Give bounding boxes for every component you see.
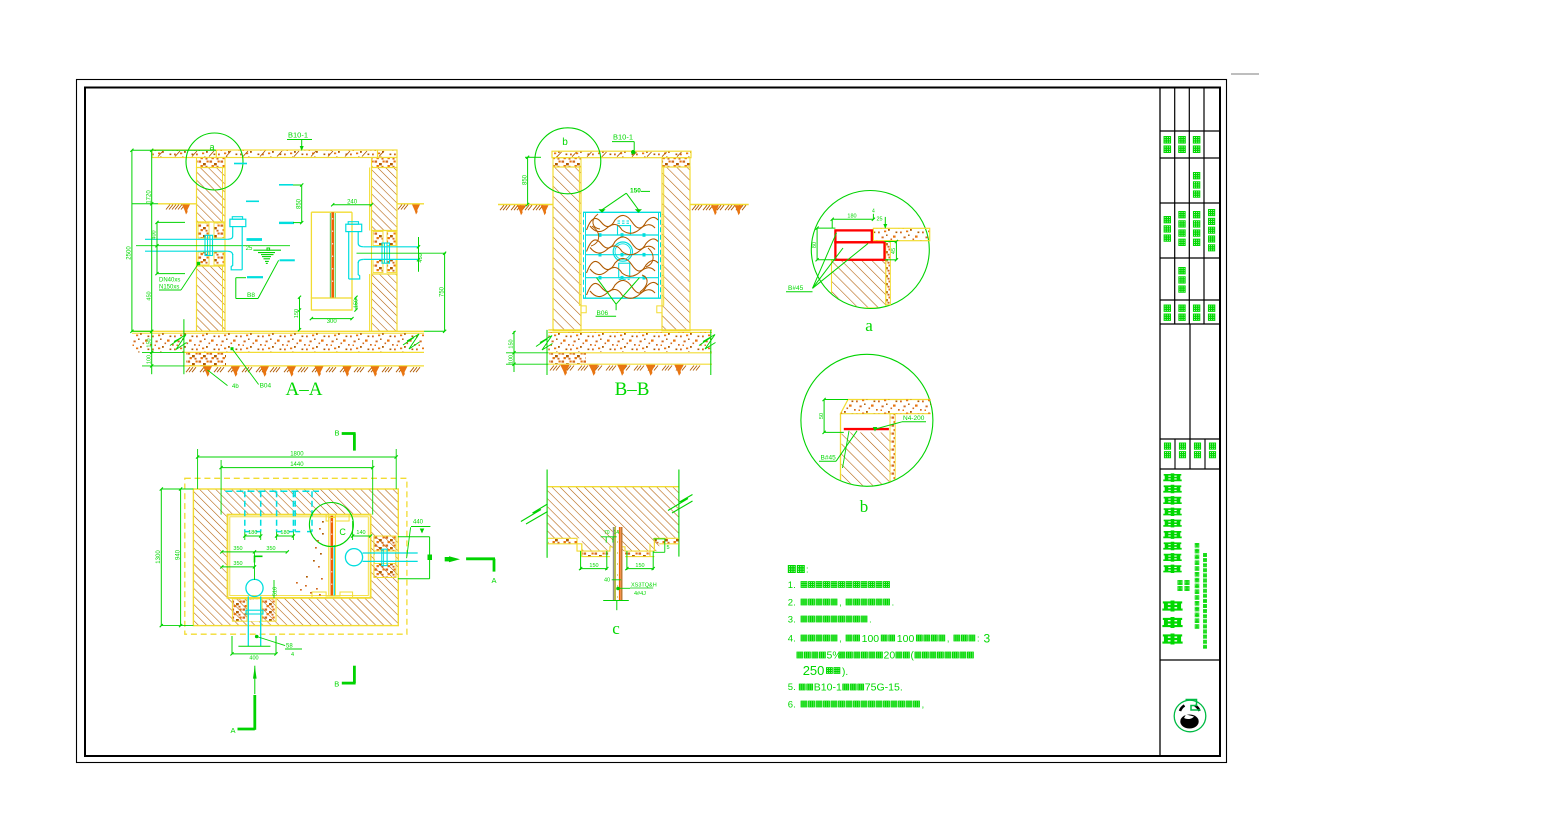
svg-text:14: 14 xyxy=(614,530,620,536)
A-A subgrade hatch and triangles xyxy=(186,367,190,372)
A-A outlet pipe centerline xyxy=(357,252,447,254)
svg-text:B10-1: B10-1 xyxy=(288,131,308,140)
A-A tee riser left outlet flare xyxy=(231,254,242,270)
svg-text:1720: 1720 xyxy=(146,190,152,204)
svg-text:150: 150 xyxy=(635,563,644,569)
title block column lines xyxy=(1174,88,1176,325)
A-A floor yellow line mid xyxy=(184,351,424,353)
svg-text:45: 45 xyxy=(891,248,897,254)
title block row lines xyxy=(1160,130,1220,132)
A-A outlet pipe flange xyxy=(382,243,390,263)
svg-text:70: 70 xyxy=(604,530,610,536)
svg-text:350: 350 xyxy=(266,546,275,552)
A-A inlet pipe DN40 xyxy=(145,238,227,240)
A-A left wall lower hatch xyxy=(197,266,226,331)
svg-text:4.: 4. xyxy=(788,634,796,645)
A-A floor slab top lines xyxy=(132,330,424,332)
A-A base leaders and labels xyxy=(208,370,228,386)
grey revision tick top right xyxy=(1231,73,1259,75)
section A-A xyxy=(127,131,447,401)
svg-text:,: , xyxy=(922,699,925,709)
plan section mark B bottom xyxy=(353,666,356,683)
A-A dimension 850 interior xyxy=(301,185,303,223)
B-B wall inner face lines xyxy=(578,167,580,306)
plan wall outer outline xyxy=(193,489,398,626)
svg-text:40: 40 xyxy=(604,578,610,584)
svg-text:180: 180 xyxy=(248,530,257,536)
svg-text:,: , xyxy=(839,633,842,643)
plan bottom pipe bracket dims xyxy=(231,636,233,654)
detail a leader lines xyxy=(813,233,837,288)
svg-text:300: 300 xyxy=(327,319,338,325)
plan corner mark xyxy=(255,556,263,562)
A-A dimension 750 right xyxy=(444,253,446,331)
A-A detail circle a xyxy=(186,133,243,190)
title text drawing-number row xyxy=(1164,216,1171,223)
A-A ground compaction triangle right xyxy=(412,205,420,215)
svg-text:4: 4 xyxy=(291,652,294,658)
sheet outer border xyxy=(77,80,1227,763)
svg-text:B04: B04 xyxy=(260,383,272,390)
A-A left outer dimension lines xyxy=(131,150,133,331)
plan outlet flange xyxy=(382,549,387,565)
B-B subgrade hatch and triangles xyxy=(550,366,554,371)
svg-text::: : xyxy=(977,633,980,643)
A-A floor break symbol right xyxy=(403,334,420,349)
svg-text:4: 4 xyxy=(872,209,875,215)
plan wall ring hatch xyxy=(193,489,398,626)
svg-text:940: 940 xyxy=(175,549,181,560)
notes title xyxy=(788,565,795,572)
B-B floor break symbols xyxy=(536,336,553,351)
A-A inlet pipe flange xyxy=(205,235,213,255)
svg-text:B#45: B#45 xyxy=(821,455,837,462)
title text signer cell xyxy=(1179,267,1186,274)
detail c bottom line xyxy=(603,600,629,602)
A-A ground compaction triangle left xyxy=(182,205,190,215)
B-B right wall cap speckle xyxy=(662,158,690,167)
plan section mark A bottom xyxy=(254,666,256,694)
A-A tee riser left with cap xyxy=(232,217,242,220)
plan bottom wall pipe box speckle xyxy=(232,599,276,622)
svg-text:6.: 6. xyxy=(788,700,796,711)
svg-text:N4-200: N4-200 xyxy=(903,415,925,422)
notes block xyxy=(788,565,991,711)
svg-text:80: 80 xyxy=(812,242,818,248)
svg-text:240: 240 xyxy=(347,199,358,205)
svg-text:.: . xyxy=(892,597,895,607)
plan dimension 350 350 xyxy=(222,551,287,553)
svg-text:,: , xyxy=(839,597,842,607)
studio name large vertical text xyxy=(1163,473,1181,481)
svg-text:140: 140 xyxy=(356,530,365,536)
svg-text:180: 180 xyxy=(280,530,289,536)
detail b top slab xyxy=(841,400,931,414)
title text project-name row xyxy=(1164,443,1170,449)
svg-text:100: 100 xyxy=(146,355,152,364)
B-B wall corbel steps xyxy=(581,306,586,313)
svg-text:B–B: B–B xyxy=(615,379,650,400)
plan divider top seat xyxy=(326,515,349,521)
plan interior speckle near divider xyxy=(319,528,321,530)
svg-text:20: 20 xyxy=(884,650,896,662)
svg-text:516: 516 xyxy=(273,587,279,596)
A-A floor bottom yellow line xyxy=(184,365,424,367)
B-B center valve stem xyxy=(618,226,631,235)
detail c waterstop strip xyxy=(613,527,623,552)
A-A right wall upper hatch xyxy=(372,168,398,231)
svg-text:a: a xyxy=(865,316,873,335)
A-A dimension 240 xyxy=(333,204,372,206)
detail c break symbols xyxy=(521,504,548,522)
svg-text:b: b xyxy=(562,137,568,148)
detail b xyxy=(801,354,933,516)
sheet inner border xyxy=(85,88,1220,757)
plan divider plate xyxy=(328,516,330,597)
A-A right wall top masonry cap xyxy=(372,158,398,168)
svg-text:450: 450 xyxy=(418,253,424,262)
B-B floor slab top lines xyxy=(548,329,712,331)
plan divider bottom seat xyxy=(312,592,353,598)
svg-text:2.: 2. xyxy=(788,598,796,609)
B-B ground triangles left xyxy=(517,205,525,215)
A-A tee riser right with cap xyxy=(348,222,358,225)
title text design/draw/check/review row xyxy=(1164,305,1171,312)
svg-text:100: 100 xyxy=(897,633,915,645)
svg-text:150: 150 xyxy=(146,338,152,347)
plan dimension 1800 top xyxy=(198,456,397,458)
detail a slab with speckle xyxy=(873,228,929,240)
section B-B xyxy=(498,128,749,400)
title block middle column line lower xyxy=(1189,324,1191,469)
svg-text:3: 3 xyxy=(984,632,991,646)
svg-text:5: 5 xyxy=(667,545,670,551)
plan dimension 1300 left xyxy=(160,489,162,626)
svg-text:c: c xyxy=(612,619,620,638)
svg-text:750: 750 xyxy=(439,286,445,297)
A-A dimension 150 chase base xyxy=(355,297,357,310)
A-A outlet pipe right xyxy=(364,246,419,248)
plan right wall pipe box speckle xyxy=(374,536,396,578)
svg-text:350: 350 xyxy=(233,561,242,567)
svg-text:B#45: B#45 xyxy=(788,285,804,292)
A-A dimension 150/100 left of chase xyxy=(299,297,301,330)
B-B floor depth dimensions xyxy=(513,331,515,372)
studio contact info vertical text xyxy=(1195,543,1199,547)
B-B bottom leader xyxy=(597,278,617,305)
svg-text:A: A xyxy=(491,576,496,585)
detail c right step dim xyxy=(653,538,665,540)
title block row 439 sub columns xyxy=(1174,439,1176,469)
B-B floor mid yellow line xyxy=(548,352,712,354)
B-B frame intermediate rails xyxy=(586,234,659,236)
plan dimension 180 pair xyxy=(245,535,261,537)
detail b circle xyxy=(801,354,933,486)
A-A dimension 450 outlet xyxy=(418,237,420,272)
svg-text:150: 150 xyxy=(294,309,300,318)
B-B floor dense rubble patch xyxy=(549,353,586,364)
svg-text:150: 150 xyxy=(589,563,598,569)
A-A sump chase walls xyxy=(310,212,312,298)
A-A water level symbol xyxy=(253,249,281,251)
detail c bottom plaster band stepped xyxy=(548,538,679,556)
svg-text:250: 250 xyxy=(803,663,825,678)
A-A divider plate with waterstop xyxy=(329,213,331,298)
svg-text:.: . xyxy=(869,614,872,624)
detail a wall plaster strip xyxy=(886,241,891,305)
plan dimension 1440 top xyxy=(221,467,373,469)
detail c dim 150 left notch xyxy=(580,551,582,570)
plan bottom pipe and valve xyxy=(246,579,263,596)
B-B cyan strainer frame xyxy=(583,211,661,213)
svg-text:50: 50 xyxy=(819,413,825,419)
svg-text:2500: 2500 xyxy=(127,246,133,260)
title text construction-drawing cell xyxy=(1193,172,1200,179)
A-A floor bedding speckle band xyxy=(132,333,424,352)
A-A floor dense rubble patch xyxy=(186,353,226,366)
detail a angle frame upper red xyxy=(835,230,871,242)
A-A ground line right xyxy=(397,203,424,205)
detail a right dimension xyxy=(895,242,897,260)
A-A inlet pipe centerline xyxy=(136,245,290,247)
plan excavation dashed outline xyxy=(185,478,407,634)
svg-text::: : xyxy=(806,565,809,575)
svg-text:440: 440 xyxy=(413,520,424,526)
B-B left depth dimension 850 xyxy=(527,157,529,204)
svg-text:350: 350 xyxy=(233,546,242,552)
svg-text:25: 25 xyxy=(876,217,882,223)
B-B floor lower yellow line xyxy=(548,363,712,365)
svg-text:100: 100 xyxy=(862,633,880,645)
A-A left wall top masonry cap xyxy=(197,158,226,168)
svg-text:180: 180 xyxy=(847,214,856,220)
plan right bracket dimension xyxy=(398,536,430,538)
svg-text:150: 150 xyxy=(509,339,515,348)
svg-text:100: 100 xyxy=(509,355,515,364)
B-B top cover slab xyxy=(552,151,691,158)
detail a angle frame lower red xyxy=(835,242,884,259)
detail a dimension top 180 xyxy=(832,218,873,220)
plan section mark A right xyxy=(466,557,495,560)
svg-text:B06: B06 xyxy=(597,310,609,317)
svg-text:C: C xyxy=(339,527,346,537)
A-A right wall pipe penetration blocks xyxy=(372,231,398,275)
plan bottom flange xyxy=(246,610,263,614)
plan detail circle C xyxy=(309,503,353,547)
B-B gravel wavy lines xyxy=(587,215,659,230)
B-B left wall cap speckle xyxy=(553,158,581,167)
detail a left dimension xyxy=(816,228,818,260)
A-A ground line left xyxy=(158,203,197,205)
svg-text:1.: 1. xyxy=(788,580,796,591)
detail c slab top edge xyxy=(548,486,679,488)
svg-text:1440: 1440 xyxy=(290,462,304,468)
detail a xyxy=(786,191,930,336)
detail c leader label xyxy=(616,587,620,591)
svg-text:150: 150 xyxy=(630,187,641,194)
B-B ground line left xyxy=(498,204,553,206)
svg-text:,: , xyxy=(947,633,950,643)
svg-text:75G-15.: 75G-15. xyxy=(865,682,903,694)
B-B ground line right xyxy=(690,204,749,206)
svg-text:25: 25 xyxy=(246,246,253,252)
B-B detail circle b xyxy=(535,128,601,194)
svg-text:A–A: A–A xyxy=(286,379,323,400)
svg-text:B8: B8 xyxy=(247,292,255,299)
A-A water surface cyan dashes xyxy=(234,163,247,165)
svg-text:4#4J: 4#4J xyxy=(634,591,646,597)
svg-text:400: 400 xyxy=(249,656,258,662)
svg-text:B10-1: B10-1 xyxy=(613,132,633,141)
svg-text:1300: 1300 xyxy=(156,550,162,564)
svg-text:B: B xyxy=(334,429,339,438)
svg-text:3.: 3. xyxy=(788,615,796,626)
svg-text:450: 450 xyxy=(146,291,152,300)
svg-text:150: 150 xyxy=(354,299,360,308)
svg-text:B10-1: B10-1 xyxy=(814,682,842,694)
detail c slab hatch xyxy=(548,487,679,551)
A-A top cover slab xyxy=(152,150,397,158)
plan dimension 350 lower xyxy=(222,566,255,568)
A-A tick line at floor left xyxy=(183,319,185,374)
detail c xyxy=(521,470,693,639)
detail b wall plaster strip xyxy=(890,414,895,482)
studio logo xyxy=(1174,700,1206,732)
svg-text:).: ). xyxy=(842,667,848,678)
B-B ground triangles right xyxy=(711,205,719,215)
svg-text:400: 400 xyxy=(152,230,158,239)
svg-text:DN40xs: DN40xs xyxy=(159,278,180,284)
plan bottom leader 58 xyxy=(257,637,285,646)
detail c slab side edges xyxy=(546,470,548,558)
B-B floor side green edges xyxy=(546,330,548,375)
detail b waterproof red line xyxy=(844,428,889,430)
A-A dimension 300 chase base xyxy=(311,318,352,320)
A-A floor break symbol left xyxy=(170,335,187,350)
svg-text:4b: 4b xyxy=(232,384,239,390)
plan wall inner outline xyxy=(228,515,371,598)
A-A floor depth dimensions xyxy=(151,331,153,374)
B-B floor bedding speckle xyxy=(548,332,712,352)
plan overhead pipes dashed xyxy=(225,490,319,492)
svg-text:850: 850 xyxy=(522,174,528,185)
A-A leader to waterline bracket xyxy=(235,278,237,299)
plan outlet pipe and valve xyxy=(345,549,362,566)
A-A left wall upper hatch xyxy=(197,168,226,223)
plan dimension 940 left xyxy=(180,489,182,626)
plan view xyxy=(156,429,497,736)
note 4 line 2 xyxy=(797,652,803,658)
title text scale/date/sheets row xyxy=(1164,136,1171,143)
detail c dim 150 right notch xyxy=(626,551,628,570)
B-B left wall hatch xyxy=(553,167,581,331)
svg-text:1800: 1800 xyxy=(290,452,304,458)
plan flow arrow right xyxy=(445,557,449,561)
A-A left wall pipe penetration blocks xyxy=(197,222,226,266)
A-A pipe elevation dimension 400 xyxy=(156,222,158,273)
svg-text:5.: 5. xyxy=(788,682,796,693)
A-A right wall lower hatch xyxy=(372,274,398,331)
plan dimension 140 xyxy=(353,535,371,537)
title block left boundary xyxy=(1159,88,1161,757)
A-A sump chase base xyxy=(311,298,352,310)
detail c plaster speckles xyxy=(548,539,577,544)
svg-text:A: A xyxy=(230,726,235,735)
B-B right wall hatch xyxy=(662,167,690,331)
detail b left dimension 50 xyxy=(823,400,825,433)
svg-text:B: B xyxy=(334,680,339,689)
svg-text:b: b xyxy=(860,497,869,516)
A-A tee riser right outlet flare xyxy=(349,262,360,279)
detail a circle xyxy=(811,191,929,309)
svg-text:850: 850 xyxy=(296,198,302,209)
